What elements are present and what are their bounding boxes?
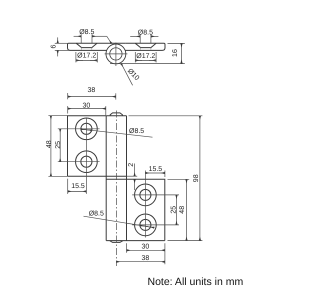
svg-text:6: 6 — [51, 45, 58, 49]
dimension Ø17.2 right — [135, 52, 156, 62]
barrel crosshair centerlines — [105, 43, 128, 67]
svg-text:Ø8.5: Ø8.5 — [89, 209, 104, 217]
dimension 15.5 (right top) — [146, 171, 165, 178]
svg-text:48: 48 — [179, 206, 186, 214]
svg-text:15.5: 15.5 — [71, 183, 85, 190]
svg-text:15.5: 15.5 — [149, 166, 163, 173]
svg-text:Ø17.2: Ø17.2 — [77, 52, 96, 60]
dimension 6 (left plate thickness) — [55, 37, 71, 56]
leader Ø8.5 (right leaf holes) — [84, 216, 155, 227]
main centerline — [115, 111, 117, 267]
right hole centerlines — [132, 171, 179, 238]
leader Ø10 (pin) — [121, 64, 132, 86]
right leaf holes — [135, 184, 157, 236]
barrel pin inner circle — [110, 48, 122, 60]
left plate outline — [68, 43, 107, 50]
svg-text:Ø8.5: Ø8.5 — [138, 28, 153, 36]
svg-text:Ø8.5: Ø8.5 — [79, 28, 94, 36]
svg-text:2: 2 — [128, 163, 135, 167]
barrel strip edges — [106, 116, 126, 241]
dimension Ø17.2 left — [76, 52, 97, 62]
dimension 30 (front top) — [68, 106, 106, 115]
plate top edge across barrel — [107, 42, 126, 44]
svg-text:48: 48 — [46, 140, 53, 148]
right leaf outline — [106, 179, 165, 240]
svg-text:16: 16 — [172, 49, 179, 57]
dimension 48 (right) — [168, 179, 190, 240]
right plate outline — [125, 43, 165, 50]
countersink hidden lines — [82, 48, 151, 51]
dimension 48 (left) — [48, 116, 67, 177]
dimension 30 (bottom) — [127, 243, 165, 264]
countersink right — [135, 43, 156, 47]
top view: hinge side profile — [68, 43, 166, 50]
left hole centerlines — [58, 118, 100, 194]
dimension 16 (right height) — [110, 43, 185, 63]
dimension 38 (top view) — [68, 93, 116, 100]
dimension 25 (left) — [59, 129, 61, 162]
dimension 25 (right) — [176, 195, 178, 225]
svg-text:98: 98 — [193, 174, 200, 182]
leader to barrel top — [107, 36, 112, 43]
left leaf holes — [76, 118, 98, 173]
svg-text:Ø8.5: Ø8.5 — [129, 127, 144, 135]
svg-text:30: 30 — [83, 102, 91, 109]
dimension 15.5 (left bottom) — [68, 179, 87, 194]
pin bump bottom — [110, 241, 122, 243]
svg-text:Ø10: Ø10 — [126, 67, 141, 82]
svg-text:30: 30 — [142, 244, 150, 251]
barrel (knuckle) outer circle — [106, 44, 126, 64]
svg-text:Note: All units in mm: Note: All units in mm — [148, 276, 244, 288]
dimension Ø8.5 right (top) — [130, 34, 158, 43]
countersink left — [76, 43, 97, 47]
left leaf outline — [68, 116, 127, 176]
leader Ø8.5 (left leaf holes) — [81, 129, 153, 137]
svg-text:38: 38 — [88, 87, 96, 94]
svg-text:25: 25 — [170, 206, 177, 214]
dimension 98 (overall) — [129, 116, 203, 241]
dimension 38 (bottom) — [117, 261, 165, 263]
pin bump top — [110, 113, 122, 116]
svg-text:25: 25 — [55, 141, 62, 149]
svg-text:38: 38 — [142, 255, 150, 262]
dimension Ø8.5 left (top) — [74, 34, 107, 43]
svg-text:Ø17.2: Ø17.2 — [136, 52, 155, 60]
dimension 2 (gap) — [127, 164, 138, 191]
